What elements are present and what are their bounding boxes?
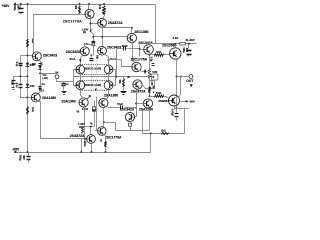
transistor Q7 2SC3423 mirror-right: [98, 46, 107, 55]
svg-text:0.1μ: 0.1μ: [15, 62, 18, 67]
svg-text:(-30): (-30): [42, 77, 47, 80]
arrow -30V: [181, 101, 187, 103]
wire x40 mid: [40, 74, 42, 86]
arrow +35V rail: [13, 3, 16, 5]
junction emitter chain / link: [92, 36, 94, 38]
junction x136 / 70u line: [135, 107, 137, 109]
wire gate bias y76.9: [116, 76, 152, 78]
wire dashed package right: [96, 60, 98, 93]
resistor R2 1k on bus lower: [27, 107, 29, 115]
wire J1-J3 source link: [80, 74, 82, 81]
arrow 5mA right: [107, 59, 110, 62]
wire Q18 emitter to output tap: [179, 77, 181, 98]
svg-text:2SA1360: 2SA1360: [42, 96, 56, 100]
capacitor C2 100u bottom-left: [28, 153, 30, 156]
junction x116.3 y76.9: [115, 76, 117, 78]
arrow annotation bottom: [90, 122, 93, 125]
wire fuse line y43.7: [149, 43, 197, 45]
wire Q17 emitter to output: [177, 59, 179, 109]
wire y122 link: [104, 122, 116, 124]
resistor R12 51ohm top: [155, 54, 164, 57]
capacitor C3 on branch x20 upper: [19, 63, 23, 65]
capacitor C1 100u top-left: [20, 5, 22, 9]
resistor box below Q14: [129, 123, 132, 126]
wire gate link y76.6: [74, 76, 116, 78]
arrow center current: [90, 55, 92, 57]
svg-text:2SK30 (GR): 2SK30 (GR): [84, 83, 101, 87]
junction line A / Q3 collector: [131, 27, 133, 29]
wire VR2 bottom to Q13 emitter: [141, 81, 155, 89]
svg-text:2SA872A: 2SA872A: [108, 21, 123, 25]
svg-text:70μF: 70μF: [117, 102, 123, 106]
ground input: [62, 91, 67, 93]
potentiometer VR2 box: [152, 74, 158, 80]
transistor J4 2SK30A lower-right: [104, 81, 113, 90]
wire Q4 emitter down x40: [39, 60, 41, 74]
transistor J2 2SK30A upper-right: [104, 65, 113, 74]
wire Q10 emitter to rail: [105, 135, 106, 153]
transistor J3 2SK30A lower-left: [76, 81, 85, 90]
svg-text:OUT: OUT: [186, 79, 194, 83]
svg-text:2SC2565: 2SC2565: [162, 44, 176, 48]
junction output node bottom: [176, 107, 178, 109]
transistor Q3 2SC1360: [127, 33, 136, 42]
wire Q15 collector to fuse line: [148, 44, 150, 45]
junction fuse line / C12: [188, 43, 190, 45]
wire Q16 collector down: [149, 109, 150, 131]
junction top rail / left bus: [27, 3, 29, 5]
junction bottom rail x81: [80, 151, 82, 153]
svg-text:+30V: +30V: [188, 38, 195, 42]
capacitor C9 30pF comp: [117, 48, 123, 50]
svg-text:2SA872A: 2SA872A: [131, 89, 146, 93]
wire x142.2 to zobel: [142, 111, 144, 134]
junction x136 / Q16 base: [135, 103, 137, 105]
junction Q9/Q10 collector node: [103, 121, 105, 123]
transistor Q5 2SA1360: [31, 93, 40, 102]
ground R10: [121, 91, 127, 93]
resistor R13 51ohm bottom: [155, 95, 164, 98]
svg-text:51Ω: 51Ω: [156, 50, 162, 54]
svg-text:(E): (E): [83, 31, 86, 34]
svg-text:100μ: 100μ: [19, 155, 22, 161]
junction top rail / C1: [20, 3, 22, 5]
svg-text:2SC1775A: 2SC1775A: [131, 57, 148, 61]
wire Q1 base line: [34, 15, 85, 53]
transistor Q4 2SC3423: [32, 52, 41, 61]
wire Q8 collector down to feedback node: [84, 108, 85, 139]
wire J4 source to Q9 top: [107, 90, 109, 100]
svg-text:2SA872A: 2SA872A: [70, 134, 85, 138]
wire branch x20 from Q4 base line: [20, 56, 22, 63]
wire Q11 collector up: [90, 127, 92, 135]
svg-text:50V: 50V: [16, 5, 19, 10]
transistor Q8 2SA1360 mirror-left: [79, 98, 88, 107]
resistor R5 small on x40: [39, 63, 42, 65]
junction Q8 collector / Q11 base line: [84, 138, 86, 140]
wire Q3 emitter down to predriver: [132, 43, 136, 63]
resistor R7 on Q10 emitter: [105, 142, 107, 147]
wire x185 down to zobel: [184, 109, 186, 134]
junction rail / R0: [79, 3, 81, 5]
wire J2 drain up: [108, 60, 110, 66]
diode D3 on x40: [38, 66, 41, 69]
svg-text:2SA1360: 2SA1360: [104, 94, 118, 98]
svg-text:-30V: -30V: [189, 100, 195, 104]
wire branch x20 middle: [20, 67, 22, 85]
transistor Q12 2SC1775A predriver top: [132, 62, 141, 71]
wire OUT tap: [177, 76, 190, 78]
wire Q1 emitter chain: [91, 18, 94, 56]
capacitor C11 70u: [108, 107, 120, 109]
arrow 5mA left: [79, 59, 82, 62]
junction fuse line / Q17: [174, 43, 176, 45]
wire Q18 collector down: [175, 107, 177, 109]
capacitor C8 on x40: [39, 86, 42, 88]
wire mid tap y76: [14, 76, 28, 78]
capacitor C12 rail top-right: [188, 44, 190, 49]
svg-text:100μ: 100μ: [13, 5, 16, 11]
wire Q14 base right: [135, 116, 137, 118]
svg-text:K60: K60: [30, 85, 35, 88]
svg-text:51Ω: 51Ω: [156, 91, 162, 95]
fuse F1 0.5A: [180, 42, 186, 45]
wire branch x20 to Q5 base line: [21, 89, 32, 98]
junction bottom rail x105: [105, 151, 107, 153]
wire 51ohm bottom line: [150, 96, 167, 98]
wire x96.5 from JFET down to Q10 base: [96, 97, 98, 131]
arrow annotation Q1: [89, 28, 92, 32]
diode D2 on bus: [26, 84, 30, 87]
junction Q1 emitter / Q2 base: [89, 23, 91, 25]
svg-text:10μ: 10μ: [10, 81, 13, 86]
svg-text:2SC3423: 2SC3423: [66, 50, 80, 54]
wire Q17 collector to fuse line: [175, 44, 177, 48]
transistor Q11 2SA872A: [87, 135, 96, 144]
svg-text:2SA1360: 2SA1360: [62, 100, 76, 104]
wire Q4 base line: [21, 55, 33, 57]
svg-text:2SC3423: 2SC3423: [43, 53, 57, 57]
svg-text:39k: 39k: [74, 5, 77, 10]
junction comp line / driver base: [139, 48, 141, 50]
svg-text:0.47μF: 0.47μF: [170, 109, 173, 117]
wire -30V feed: [177, 108, 190, 110]
transistor Q17 2SC2565 power top: [170, 48, 181, 59]
wire y59.9 link: [109, 59, 122, 61]
resistor R4 from rail: [104, 5, 106, 7]
arrow Q5 emitter: [39, 89, 41, 91]
transistor Q10 2SC1775A VAS bottom: [98, 127, 107, 136]
wire Q13 collector down x136: [136, 90, 138, 117]
svg-text:47kΩ: 47kΩ: [83, 141, 86, 147]
svg-text:2SC3423: 2SC3423: [138, 41, 152, 45]
terminal IN: [55, 75, 59, 79]
svg-text:0.1μ: 0.1μ: [15, 83, 18, 88]
diode D1 on bus: [26, 63, 30, 66]
arrow +30V: [185, 39, 188, 41]
svg-text:50V: 50V: [185, 48, 187, 53]
svg-text:50V: 50V: [22, 155, 25, 160]
net +35V top rail: [14, 4, 156, 6]
package outline dual JFET lower: [80, 80, 111, 90]
transistor Q18 2SB554 power bottom: [169, 95, 180, 106]
svg-text:560: 560: [32, 63, 37, 66]
svg-text:6.2k: 6.2k: [98, 5, 101, 10]
capacitor C4 on branch x20 lower: [19, 84, 23, 86]
net -35V bottom rail: [15, 152, 151, 154]
svg-text:5mA: 5mA: [110, 57, 116, 61]
wire Q7 emitter to JFET drain: [105, 55, 109, 66]
svg-text:0.5A: 0.5A: [173, 36, 179, 40]
svg-text:40Ω: 40Ω: [79, 126, 84, 129]
transistor Q13 2SA872A predriver bottom: [133, 80, 142, 89]
wire J1 J3 gate bus: [74, 70, 76, 86]
junction x40 y73: [39, 72, 41, 74]
wire Q3 collector up to line A: [131, 28, 133, 34]
arrow VR2 wiper: [152, 76, 155, 78]
junction zobel / rail corner: [150, 132, 152, 134]
wire node44 Q6 collector link: [85, 45, 94, 48]
wire y130.4 link to driver collector: [116, 130, 150, 132]
package outline dual JFET upper: [80, 65, 111, 75]
transistor Q14 2SC3423 bottom cascode: [125, 112, 134, 121]
svg-text:E: E: [173, 52, 176, 57]
wire line A y27.9: [103, 27, 132, 29]
wire Q15 emitter down: [150, 54, 151, 97]
wire top-rail right drop to fuse line: [155, 5, 157, 44]
transistor Q16 2SA1360 driver bottom: [143, 99, 152, 108]
wire Q14 emitter down: [130, 122, 132, 124]
wire y126 link: [83, 126, 95, 128]
junction bus / Q4 base: [27, 54, 29, 56]
resistor R8 small: [82, 128, 84, 134]
wire Q11 emitter to rail: [92, 143, 93, 153]
wire Q5 collector to x40 drop: [36, 102, 87, 139]
wire J3 source to Q8 top: [81, 90, 83, 98]
wire Q2 base line: [91, 23, 98, 25]
arrow -35V rail: [14, 151, 17, 153]
capacitor C13 0.47u output: [176, 109, 178, 113]
resistor R3 box on emitter chain: [92, 41, 95, 45]
wire J2 J4 gate bus: [113, 70, 116, 86]
junction y126 / Q11 collector: [90, 125, 92, 127]
wire Q2 collector down: [102, 28, 104, 47]
svg-text:2SC1360: 2SC1360: [134, 30, 148, 34]
wire Q6 emitter to JFET drain: [81, 56, 83, 66]
svg-text:2SB554: 2SB554: [158, 99, 169, 103]
resistor R14 zobel: [162, 133, 169, 135]
junction driver emitter / base top: [149, 54, 151, 56]
wire box to y130.4: [130, 127, 132, 131]
wire Q16 base stub: [137, 103, 144, 105]
wire dashed package left: [90, 54, 92, 94]
wire Q1 collector to rail: [88, 5, 90, 10]
speaker arrow below OUT: [190, 84, 193, 87]
svg-text:100μ: 100μ: [182, 47, 185, 53]
svg-text:2SK30 (GR): 2SK30 (GR): [84, 67, 101, 71]
wire link to Q7 collector: [94, 36, 128, 38]
wire comp left drop: [116, 49, 118, 77]
junction bus / mid tap: [27, 75, 29, 77]
arrow R15: [153, 92, 155, 94]
capacitor C6 small center top: [90, 58, 94, 60]
wire x115.6 down: [115, 123, 117, 131]
wire Q10 collector stub: [103, 123, 105, 127]
junction rail / R4: [103, 3, 105, 5]
ground stub C5: [13, 85, 15, 88]
transistor Q15 2SC3423 driver top: [144, 45, 154, 55]
svg-text:30pF: 30pF: [122, 44, 128, 48]
svg-text:2SC1775A: 2SC1775A: [63, 19, 82, 23]
svg-text:2SA1360: 2SA1360: [139, 107, 153, 111]
resistor R1 1k on bus upper: [27, 40, 29, 47]
wire bottom-rail right corner up to zobel: [150, 134, 152, 153]
resistor R11 560 VR2 series: [149, 69, 151, 79]
capacitor C10 tiny: [152, 63, 155, 65]
wire power bottom base diag: [167, 97, 169, 99]
junction bus / Q5 base: [27, 96, 29, 98]
transistor Q6 2SC3423 mirror-left: [80, 47, 89, 56]
resistor R0 39k rail to Q1 base: [79, 5, 81, 7]
svg-text:10μ: 10μ: [95, 55, 97, 60]
wire zobel y133.3: [143, 133, 185, 135]
wire 51ohm top line: [150, 54, 170, 56]
transistor Q1 2SC1775A: [85, 9, 94, 18]
capacitor C5 10u on mid tap: [13, 77, 15, 80]
wire Q15 base: [140, 49, 144, 51]
wire mirror chain x93.4: [94, 101, 96, 127]
svg-text:E: E: [171, 99, 174, 104]
transistor Q2 2SA872A: [98, 18, 107, 27]
wire R11 bottom join: [150, 79, 155, 81]
wire IN to gate bus: [57, 79, 74, 82]
svg-text:+35V: +35V: [1, 4, 10, 8]
capacitor C7 input to ground: [63, 82, 65, 83]
svg-text:5mA: 5mA: [70, 57, 76, 61]
wire Q9 collector down: [103, 108, 105, 123]
wire J2-J4 source link: [108, 74, 110, 81]
svg-text:2SC1775A: 2SC1775A: [105, 135, 122, 139]
wire tap y73 to IN: [41, 74, 57, 76]
wire x139.5 driver base riser: [139, 45, 141, 57]
junction bottom rail / bus: [27, 151, 29, 153]
wire left bus: [27, 5, 29, 153]
resistor R15 on driver emitter chain: [149, 87, 151, 93]
wire x121.6 down to predriver base: [122, 60, 132, 67]
transistor J1 2SK30A upper-left: [76, 65, 85, 74]
transistor Q9 2SA1360 mirror-right: [99, 98, 108, 107]
svg-text:2SC3423: 2SC3423: [120, 107, 134, 111]
junction driver emitter / base bottom: [149, 95, 151, 97]
svg-text:1kΩ: 1kΩ: [161, 128, 166, 132]
arrow Q8 emitter: [87, 95, 91, 99]
svg-text:VR2: VR2: [152, 70, 158, 74]
resistor R6 box: [93, 107, 96, 111]
wire into Q5 emitter: [39, 92, 41, 94]
svg-text:1kΩ: 1kΩ: [31, 107, 34, 112]
junction output / OUT tap: [176, 76, 178, 78]
junction rail / Q1 collector: [88, 3, 90, 5]
resistor drop to rail: [81, 139, 83, 153]
wire Q12 emitter to VR2 chain: [140, 71, 150, 72]
junction link / Q2 collector: [101, 36, 103, 38]
wire x136 from 70u line: [136, 108, 138, 117]
junction x20 / mid tap: [19, 75, 21, 77]
wire Q10 base stub: [95, 130, 98, 132]
junction bottom rail x91: [91, 151, 93, 153]
terminal OUT: [189, 75, 193, 79]
resistor R10 bias to ground: [123, 77, 125, 79]
svg-text:E152: E152: [82, 107, 89, 111]
junction OUT line / Q18 emitter riser: [180, 76, 182, 78]
